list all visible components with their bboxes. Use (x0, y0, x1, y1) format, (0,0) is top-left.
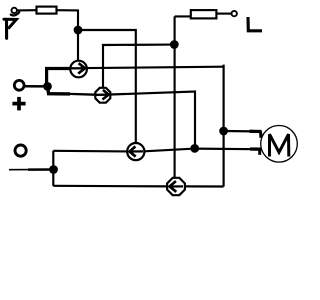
wire node D elbow to meter A2 (thick start) (48, 86, 71, 94)
wire terminal P to resistor R1 (17, 9, 36, 11)
wire vertical from top corner down to meter A1 (77, 10, 79, 61)
wire A1 output to right corner (87, 67, 224, 68)
meter A1 (circle, arrow right) (70, 61, 87, 78)
wire R2 to terminal L (216, 13, 231, 15)
wire node E to motor lower terminal (195, 148, 255, 151)
wire node D up and right into meter A1 (thick) (47, 69, 71, 87)
label P (4, 12, 19, 38)
junction dot node F (53.5,169.5) (49, 165, 58, 174)
wire A2 output rising to corner then down to node E (111, 92, 196, 149)
resistor R2 (191, 10, 217, 18)
wire node B to corner, then down to meter A3 (78, 30, 136, 143)
wire motor top node to motor (224, 130, 254, 133)
wire upper branch to meter A3 (53, 150, 127, 153)
wire right vertical bus down to corner at A4 line (223, 65, 225, 187)
motor M1 (circle) (261, 126, 298, 163)
wire terminal plus to junction (24, 85, 47, 88)
motor upper terminal bracket (250, 130, 262, 133)
label L (248, 17, 262, 31)
junction dot motor top node (219, 127, 228, 136)
junction dot node D (47.5,86.4) (43, 82, 52, 91)
junction dot node E (194.6,148.4) (190, 144, 199, 153)
label plus (12, 97, 25, 111)
label M inside motor (270, 134, 289, 155)
wire bare lead to junction (28, 168, 54, 171)
meter A2 (octagon, arrow right) (95, 88, 110, 103)
wire vertical from R2 corner through node C down to meter A4 (174, 16, 176, 177)
meter A4 (octagon, arrow left) (167, 178, 185, 195)
wire lower branch from node F to meter A4 (53, 185, 167, 188)
junction dot node C (174,44.5) (170, 40, 179, 49)
wire node F vertical up/down (52, 151, 54, 186)
terminal plus (open circle) (14, 80, 24, 90)
wire corner to node C then right (103, 45, 174, 88)
terminal L (open circle) (232, 11, 237, 16)
wire continue to meter A2 (69, 93, 95, 96)
wire R1 to top corner (57, 9, 80, 11)
resistor R1 (37, 7, 57, 14)
wire A4 output to right bus corner (185, 185, 224, 187)
motor lower terminal bracket (250, 147, 261, 150)
junction dot at node B (78,30) (74, 26, 83, 35)
label o (15, 145, 26, 156)
wire bare lead left (thin end) (9, 169, 30, 171)
wire A3 output to node E (144, 149, 194, 152)
wire corner to resistor R2 (175, 15, 191, 17)
terminal P (open circle) (12, 8, 17, 13)
meter A3 (circle, arrow left) (127, 143, 144, 160)
